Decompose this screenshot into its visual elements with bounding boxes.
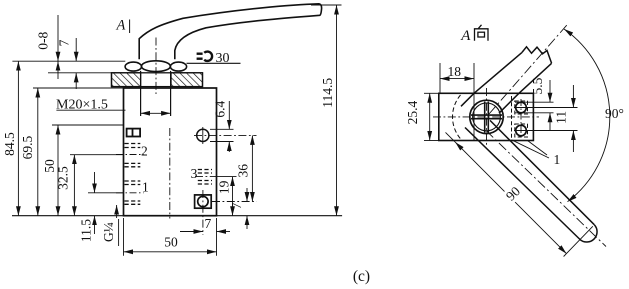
svg-text:7: 7 (205, 216, 212, 231)
svg-text:32.5: 32.5 (56, 166, 71, 190)
svg-text:114.5: 114.5 (320, 78, 335, 108)
svg-text:90°: 90° (605, 106, 624, 121)
svg-text:19: 19 (217, 180, 232, 194)
svg-text:1: 1 (554, 152, 561, 167)
svg-text:0-8: 0-8 (36, 31, 51, 49)
svg-text:18: 18 (448, 64, 462, 79)
svg-text:3: 3 (191, 166, 198, 181)
svg-text:|: | (128, 18, 131, 34)
svg-text:5.5: 5.5 (530, 77, 545, 94)
svg-text:25.4: 25.4 (405, 100, 420, 124)
svg-text:(c): (c) (353, 268, 370, 285)
svg-text:36: 36 (236, 164, 251, 178)
svg-text:A: A (116, 18, 126, 34)
svg-text:50: 50 (164, 235, 178, 250)
svg-text:30: 30 (216, 51, 230, 66)
svg-text:84.5: 84.5 (2, 132, 17, 156)
svg-text:7: 7 (57, 39, 72, 46)
svg-text:69.5: 69.5 (20, 135, 35, 159)
svg-text:11: 11 (553, 111, 568, 124)
svg-text:7: 7 (229, 202, 244, 209)
svg-text:50: 50 (42, 159, 57, 173)
svg-text:2: 2 (141, 144, 148, 159)
svg-text:G¼: G¼ (101, 222, 116, 242)
svg-text:1: 1 (142, 179, 149, 194)
svg-text:6.4: 6.4 (213, 101, 228, 118)
svg-text:M20×1.5: M20×1.5 (56, 97, 108, 112)
svg-text:A: A (460, 28, 471, 44)
svg-text:11.5: 11.5 (79, 219, 94, 242)
